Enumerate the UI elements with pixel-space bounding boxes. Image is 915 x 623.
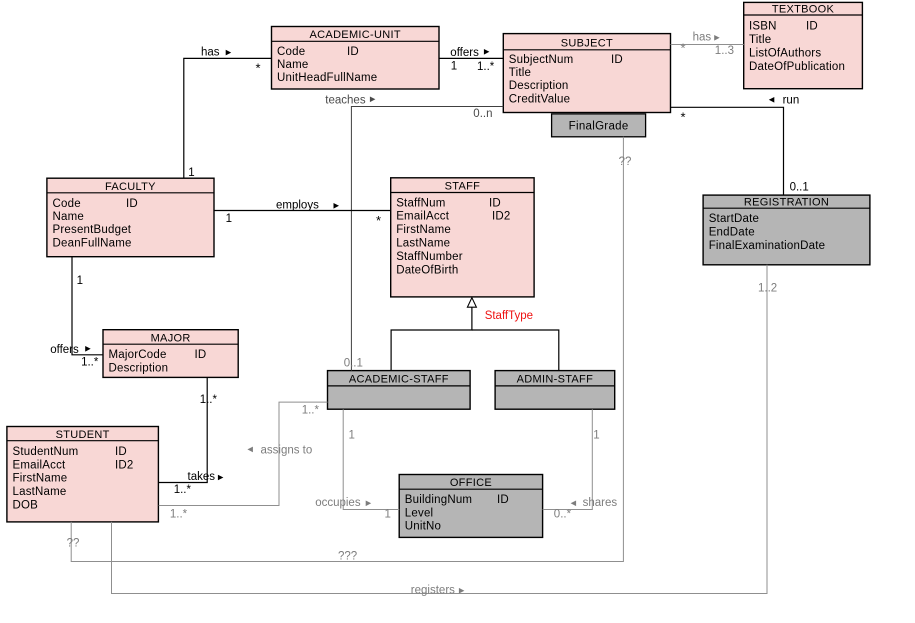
entity ACADEMIC-UNIT	[272, 27, 440, 90]
svg-text:ListOfAuthors: ListOfAuthors	[749, 47, 821, 59]
svg-text:MajorCode: MajorCode	[109, 349, 167, 361]
svg-text:STAFF: STAFF	[445, 181, 481, 193]
svg-text:teaches: teaches	[325, 94, 366, 106]
svg-text:1: 1	[349, 430, 355, 442]
svg-text:0..*: 0..*	[554, 509, 572, 521]
svg-text:BuildingNum: BuildingNum	[405, 494, 472, 506]
svg-text:Name: Name	[53, 211, 84, 223]
svg-text:shares: shares	[583, 497, 618, 509]
svg-text:LastName: LastName	[13, 486, 67, 498]
svg-text:1..*: 1..*	[81, 357, 99, 369]
svg-text:FinalExaminationDate: FinalExaminationDate	[709, 240, 826, 252]
svg-text:Code: Code	[277, 46, 305, 58]
wire assigns_to ACADEMIC_STAFF-STUDENT	[159, 402, 328, 505]
svg-text:FirstName: FirstName	[13, 473, 68, 485]
svg-text:StartDate: StartDate	[709, 213, 759, 225]
entity SUBJECT	[503, 34, 670, 113]
wire employs FACULTY-STAFF	[214, 210, 391, 212]
svg-text:ID: ID	[497, 494, 509, 506]
svg-text:*: *	[256, 61, 261, 76]
svg-text:ADMIN-STAFF: ADMIN-STAFF	[517, 374, 593, 386]
svg-text:1: 1	[77, 275, 83, 287]
svg-text:*: *	[681, 110, 686, 125]
label employs	[276, 200, 339, 212]
wire offers ACADEMIC_UNIT-SUBJECT	[439, 57, 503, 59]
svg-text:1..*: 1..*	[170, 509, 188, 521]
wire registers STUDENT-REGISTRATION	[112, 265, 768, 594]
svg-text:ID2: ID2	[492, 211, 511, 223]
svg-text:REGISTRATION: REGISTRATION	[744, 196, 829, 208]
svg-text:registers: registers	[411, 584, 455, 596]
svg-text:EmailAcct: EmailAcct	[396, 211, 450, 223]
wire ??? STUDENT-FinalGrade	[71, 137, 623, 562]
svg-text:employs: employs	[276, 200, 319, 212]
svg-text:ACADEMIC-STAFF: ACADEMIC-STAFF	[349, 374, 449, 386]
svg-text:ACADEMIC-UNIT: ACADEMIC-UNIT	[310, 29, 401, 41]
svg-text:assigns to: assigns to	[261, 444, 313, 456]
svg-text:StaffNumber: StaffNumber	[396, 251, 463, 263]
svg-text:0..1: 0..1	[790, 182, 809, 194]
svg-text:has: has	[201, 46, 220, 58]
svg-text:0..n: 0..n	[473, 108, 492, 120]
label offers (FACULTY-MAJOR)	[50, 344, 90, 356]
svg-text:TEXTBOOK: TEXTBOOK	[772, 3, 835, 15]
svg-text:FinalGrade: FinalGrade	[569, 120, 629, 132]
label run	[769, 94, 799, 106]
svg-text:PresentBudget: PresentBudget	[53, 224, 132, 236]
svg-text:1: 1	[188, 167, 194, 179]
svg-text:DateOfPublication: DateOfPublication	[749, 61, 845, 73]
svg-text:1..3: 1..3	[715, 45, 734, 57]
svg-text:*: *	[376, 213, 381, 228]
svg-text:LastName: LastName	[396, 238, 450, 250]
svg-text:SubjectNum: SubjectNum	[509, 54, 574, 66]
svg-text:ID: ID	[806, 21, 818, 33]
wire offers FACULTY-MAJOR	[72, 257, 103, 355]
wire has FACULTY-ACADEMIC_UNIT	[184, 58, 272, 178]
svg-text:*: *	[681, 41, 686, 56]
svg-text:offers: offers	[50, 344, 79, 356]
svg-text:1..*: 1..*	[477, 61, 495, 73]
svg-text:offers: offers	[450, 47, 479, 59]
svg-text:Description: Description	[509, 80, 569, 92]
svg-text:???: ???	[338, 551, 357, 563]
label offers	[450, 47, 489, 59]
entity ACADEMIC-STAFF	[328, 371, 471, 410]
svg-text:ID: ID	[347, 46, 359, 58]
svg-text:ISBN: ISBN	[749, 21, 777, 33]
svg-text:run: run	[783, 94, 800, 106]
entity OFFICE	[399, 475, 542, 538]
svg-text:1..*: 1..*	[200, 394, 218, 406]
svg-text:1..*: 1..*	[174, 484, 192, 496]
svg-text:CreditValue: CreditValue	[509, 93, 570, 105]
svg-text:1: 1	[593, 430, 599, 442]
label shares	[571, 497, 618, 509]
svg-text:EmailAcct: EmailAcct	[13, 459, 67, 471]
svg-text:Code: Code	[53, 198, 81, 210]
label assigns to	[247, 444, 312, 456]
wire run SUBJECT-REGISTRATION	[671, 107, 784, 195]
svg-text:1: 1	[226, 213, 232, 225]
svg-text:StaffNum: StaffNum	[396, 197, 445, 209]
wire takes MAJOR-STUDENT	[159, 377, 208, 482]
svg-text:STUDENT: STUDENT	[56, 429, 110, 441]
svg-text:Title: Title	[749, 34, 771, 46]
label takes	[188, 471, 224, 483]
entity FACULTY	[47, 178, 214, 257]
svg-text:ID: ID	[489, 197, 501, 209]
label has	[201, 46, 231, 58]
wire has SUBJECT-TEXTBOOK	[671, 44, 744, 46]
svg-text:Level: Level	[405, 507, 434, 519]
svg-text:MAJOR: MAJOR	[151, 332, 191, 344]
svg-text:??: ??	[619, 156, 632, 168]
svg-text:StudentNum: StudentNum	[13, 446, 79, 458]
svg-text:ID: ID	[611, 54, 623, 66]
svg-text:1: 1	[451, 61, 457, 73]
svg-text:ID2: ID2	[115, 459, 134, 471]
svg-text:ID: ID	[115, 446, 127, 458]
entity STUDENT	[7, 427, 159, 522]
label teaches	[325, 94, 375, 106]
label occupies	[315, 497, 371, 509]
svg-text:Description: Description	[109, 362, 169, 374]
entity TEXTBOOK	[744, 2, 863, 88]
label registers	[411, 584, 465, 596]
svg-text:1..*: 1..*	[302, 404, 320, 416]
svg-text:has: has	[693, 32, 712, 44]
svg-text:1..2: 1..2	[758, 283, 777, 295]
svg-text:ID: ID	[195, 349, 207, 361]
wire shares ADMIN_STAFF-OFFICE	[543, 409, 593, 509]
svg-text:EndDate: EndDate	[709, 227, 755, 239]
svg-text:SUBJECT: SUBJECT	[561, 37, 613, 49]
svg-text:??: ??	[67, 538, 80, 550]
wire teaches SUBJECT-ACADEMIC_STAFF	[351, 107, 503, 371]
svg-text:occupies: occupies	[315, 497, 361, 509]
svg-text:DOB: DOB	[13, 500, 39, 512]
entity STAFF	[391, 178, 534, 297]
entity REGISTRATION	[703, 195, 870, 265]
svg-text:StaffType: StaffType	[485, 310, 533, 322]
entity MAJOR	[103, 330, 238, 378]
svg-text:Name: Name	[277, 59, 308, 71]
svg-text:UnitHeadFullName: UnitHeadFullName	[277, 72, 377, 84]
association-class FinalGrade	[552, 114, 646, 137]
svg-text:1: 1	[385, 509, 391, 521]
svg-text:0..1: 0..1	[344, 357, 363, 369]
entity ADMIN-STAFF	[495, 371, 615, 410]
wire occupies ACADEMIC_STAFF-OFFICE	[343, 409, 399, 509]
svg-text:takes: takes	[188, 471, 216, 483]
label has (gray)	[693, 32, 720, 44]
svg-text:FACULTY: FACULTY	[105, 181, 156, 193]
svg-text:DeanFullName: DeanFullName	[53, 237, 132, 249]
svg-text:ID: ID	[126, 198, 138, 210]
svg-text:Title: Title	[509, 67, 531, 79]
svg-text:UnitNo: UnitNo	[405, 521, 441, 533]
svg-text:OFFICE: OFFICE	[450, 477, 492, 489]
svg-text:DateOfBirth: DateOfBirth	[396, 264, 458, 276]
svg-text:FirstName: FirstName	[396, 224, 451, 236]
generalization StaffType STAFF-(ACADEMIC_STAFF,ADMIN_STAFF)	[391, 298, 559, 371]
